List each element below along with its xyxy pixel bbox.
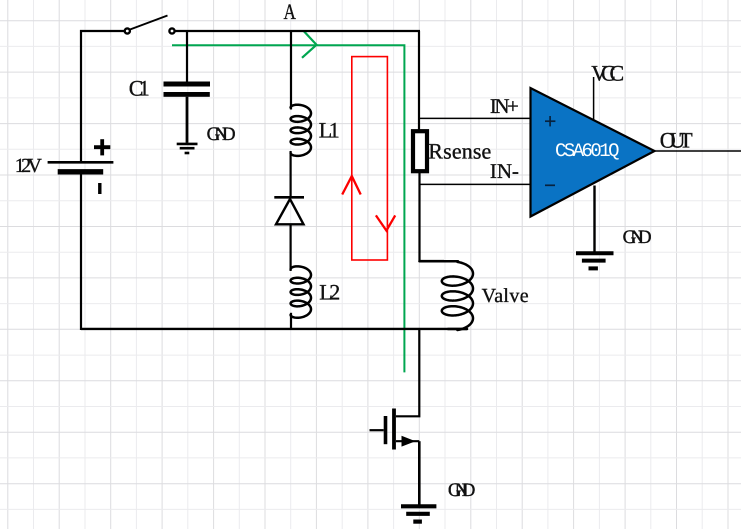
svg-text:Valve: Valve bbox=[482, 285, 529, 307]
svg-text:GND: GND bbox=[207, 124, 236, 145]
svg-text:GND: GND bbox=[448, 480, 476, 501]
svg-text:L2: L2 bbox=[319, 279, 340, 304]
svg-text:VCC: VCC bbox=[591, 61, 624, 86]
svg-text:IN+: IN+ bbox=[490, 94, 519, 118]
svg-text:12V: 12V bbox=[15, 155, 43, 177]
svg-text:OUT: OUT bbox=[660, 128, 694, 153]
svg-text:IN-: IN- bbox=[490, 159, 519, 183]
svg-text:C1: C1 bbox=[129, 76, 150, 101]
svg-text:CSA601Q: CSA601Q bbox=[555, 140, 620, 162]
svg-text:A: A bbox=[284, 0, 296, 24]
svg-text:Rsense: Rsense bbox=[428, 138, 491, 163]
svg-text:GND: GND bbox=[623, 227, 652, 248]
svg-text:L1: L1 bbox=[319, 117, 340, 142]
